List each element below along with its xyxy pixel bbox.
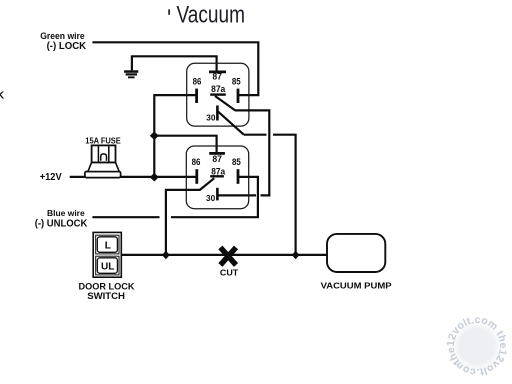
svg-text:CUT: CUT [220,268,238,277]
junction J1 bus to relay K2 pin 87 [150,131,159,140]
relay K2 pin 30 terminal [216,188,219,201]
door lock switch button UL [96,256,119,275]
relay K1 box [187,63,249,126]
wire: blue unlock wire to relay K2 pin 85 (after gap) [171,177,258,217]
svg-text:Blue wire: Blue wire [47,208,85,218]
ground symbol [124,70,138,78]
svg-text:Green wire: Green wire [40,31,85,41]
svg-text:86: 86 [193,76,202,87]
fuse F1 element [101,154,107,161]
relay K1 pin 86 terminal [195,89,198,103]
wire: factory wire door lock switch to vacuum pump [121,254,327,256]
watermark the12volt.com [432,301,512,384]
junction J2 bus at +12V feed [150,173,159,182]
fuse F1 holder base [85,172,121,178]
relay K2 pin 86 terminal [195,169,198,184]
fuse F1 body [92,145,116,162]
cut mark X [220,247,236,265]
relay K1 pin 87a terminal [210,93,226,95]
svg-text:85: 85 [232,156,241,167]
relay K2 armature from 87a [200,178,214,190]
relay K1 switch arm from pin 30 [218,111,244,134]
wire: blue unlock wire (segment left of crossover gap) [92,216,159,218]
svg-text:L: L [105,240,111,251]
relay K1 pin 87 terminal [209,71,226,74]
relay K1 armature from 87a [215,96,235,110]
svg-text:30: 30 [206,193,216,203]
vacuum pump body [327,234,385,272]
wire: green lock wire to relay K1 pin 85 [92,42,258,95]
relay K2 pin 87a terminal [210,175,224,177]
relay K1 pin 85 terminal [237,89,240,103]
wire: K2 87a arm down to pump line junction J3 [166,190,201,255]
relay K2 pin 85 terminal [237,169,240,184]
fuse F1 holder cup [88,162,119,171]
wire: relay K1 pin 86 to +12V bus [154,95,196,177]
wire: K2 pin 30 lead (segment after crossover gap) [217,194,256,196]
wire: K1 pin 30 to pump line (segment before crossover gap) [244,134,267,136]
stray mark left of title [168,9,170,14]
svg-text:(-) LOCK: (-) LOCK [47,41,87,52]
fuse F1 blade dividers [98,146,108,162]
svg-text:15A FUSE: 15A FUSE [85,137,121,146]
door lock switch button L [96,235,119,254]
svg-text:UL: UL [101,261,114,272]
svg-text:VACUUM PUMP: VACUUM PUMP [321,280,392,290]
svg-text:86: 86 [192,156,201,167]
wire: K1 pin 30 to pump line (segment after gap, down to junction J4) [273,135,296,255]
svg-text:87: 87 [212,153,222,164]
junction J4 pump side [292,251,300,259]
svg-text:Vacuum: Vacuum [177,2,246,29]
wire: +12V feed through fuse to relay K2 pin 86 [70,176,197,178]
svg-text:K: K [0,89,5,101]
door lock switch outer box [93,232,121,277]
svg-text:30: 30 [206,112,216,122]
wire: bus junction to relay K2 pin 87 [154,136,216,153]
svg-text:87a: 87a [211,83,226,94]
svg-text:85: 85 [232,76,241,87]
svg-text:SWITCH: SWITCH [87,291,125,302]
relay K1 pin 30 terminal [216,106,219,121]
svg-text:87: 87 [212,70,222,81]
svg-text:87a: 87a [211,165,226,176]
wire: K1 87a arm to K2 pin 30 (segment before crossover gap) [235,110,269,195]
wire: relay K1 pin 87 to ground [132,56,217,71]
relay K2 pin 87 terminal [209,152,225,155]
junction J3 switch side [162,251,170,259]
relay K2 box [186,146,248,209]
svg-text:(-) UNLOCK: (-) UNLOCK [35,218,88,229]
svg-text:+12V: +12V [40,172,62,183]
